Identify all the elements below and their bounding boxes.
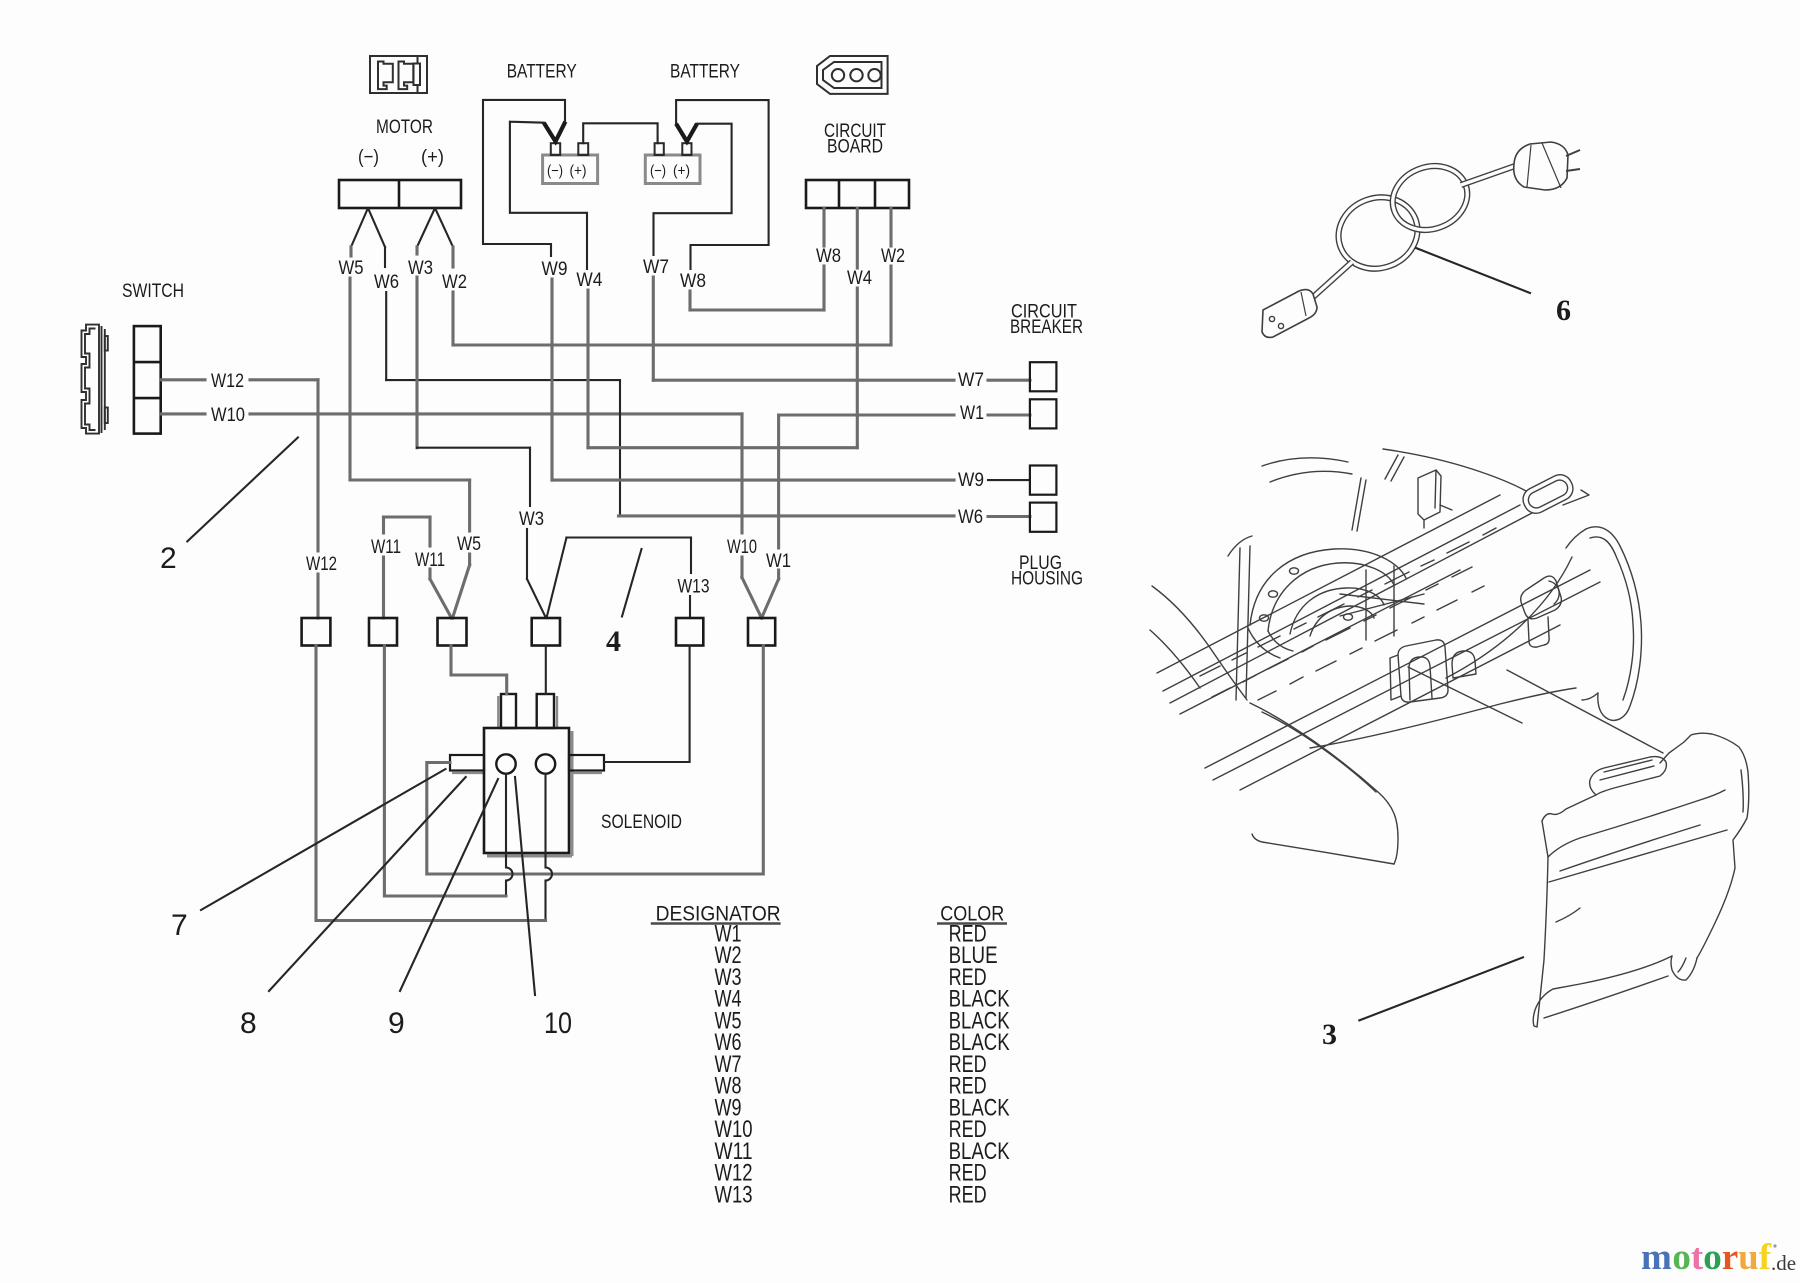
- callout leader 10: [515, 777, 535, 995]
- motoruf logo: [1641, 1237, 1796, 1278]
- wire terminal T4 to solenoid right stud: [545, 646, 547, 695]
- svg-text:4: 4: [606, 625, 621, 658]
- fan bracket: [1340, 566, 1424, 640]
- svg-text:SWITCH: SWITCH: [122, 280, 184, 302]
- cord tail to connector: [1312, 262, 1352, 298]
- wire W1 terminal to breaker: [762, 415, 1030, 618]
- svg-text:W9: W9: [958, 470, 984, 491]
- svg-text:6: 6: [1556, 294, 1571, 327]
- appliance connector: [1262, 290, 1317, 338]
- wire solenoid right tab to terminal T5: [604, 646, 690, 763]
- svg-text:BOARD: BOARD: [827, 136, 883, 158]
- svg-text:W13: W13: [678, 577, 710, 598]
- terminal block T3: [438, 618, 467, 646]
- svg-text:W1: W1: [766, 551, 791, 572]
- svg-text:W5: W5: [457, 534, 481, 555]
- svg-text:u: u: [1738, 1237, 1759, 1278]
- svg-text:W13: W13: [715, 1182, 753, 1209]
- wire W11 jumper between terminals: [384, 517, 452, 618]
- callout leader 2: [187, 438, 298, 542]
- solenoid left tab: [450, 755, 484, 771]
- svg-text:f: f: [1759, 1237, 1772, 1278]
- mower deck illustration: [1150, 449, 1663, 864]
- wire W5 motor to terminal: [350, 247, 470, 618]
- svg-text:W3: W3: [519, 509, 544, 530]
- solenoid left post circle: [496, 754, 515, 773]
- wire W10 switch to terminal: [161, 414, 762, 618]
- svg-text:W1: W1: [960, 403, 984, 424]
- svg-text:(−): (−): [547, 163, 563, 180]
- svg-text:W3: W3: [408, 258, 433, 279]
- wire W8 battery B2 to circuit board: [676, 100, 769, 269]
- callout leader 8: [269, 777, 466, 991]
- top clip bracket: [1418, 470, 1441, 520]
- svg-text:MOTOR: MOTOR: [376, 116, 433, 138]
- wire W7 battery B2 to circuit breaker: [654, 124, 732, 255]
- wire W13 terminal B5 to terminal B4: [547, 538, 692, 619]
- wire W6 motor to plug housing: [385, 247, 620, 515]
- deck top rim arcs: [1262, 458, 1348, 466]
- svg-text:SOLENOID: SOLENOID: [601, 811, 682, 833]
- assembly leader lines: [1408, 667, 1522, 723]
- wire W12 switch to terminal: [161, 380, 318, 618]
- wire W3 motor to terminal: [415, 247, 418, 448]
- designator table rows: [715, 921, 1010, 1209]
- deck shell right edge: [1446, 557, 1572, 678]
- wire solenoid left post to terminal T2: [506, 774, 513, 896]
- handle rail end cap: [1519, 471, 1577, 518]
- plug housing box P1: [1030, 466, 1057, 495]
- solenoid SOL1 body: [452, 696, 602, 856]
- discharge cover illustration (item 3): [1533, 733, 1749, 1027]
- svg-text:.de: .de: [1771, 1251, 1796, 1275]
- battery B2: [645, 143, 700, 183]
- fan antenna: [1352, 478, 1366, 531]
- small cap: [1452, 651, 1476, 678]
- wire solenoid left tab to terminal T6 (crosses under posts): [427, 646, 764, 875]
- svg-text:W10: W10: [211, 405, 245, 426]
- svg-text:3: 3: [1322, 1018, 1337, 1051]
- plug housing box P2: [1030, 503, 1057, 532]
- svg-text:10: 10: [544, 1007, 572, 1040]
- svg-text:W11: W11: [415, 550, 445, 571]
- wire W2 motor to circuit board: [453, 208, 891, 345]
- svg-text:(+): (+): [570, 163, 587, 180]
- svg-text:BREAKER: BREAKER: [1010, 316, 1083, 338]
- callout leader 3: [1359, 957, 1523, 1020]
- svg-text:W7: W7: [958, 370, 984, 391]
- svg-text:W8: W8: [816, 246, 841, 267]
- svg-text:8: 8: [240, 1007, 257, 1040]
- circuit breaker box CB2: [1030, 399, 1057, 428]
- lower bracket: [1398, 640, 1448, 702]
- svg-text:o: o: [1703, 1237, 1722, 1278]
- svg-text:RED: RED: [949, 1182, 987, 1209]
- svg-text:(+): (+): [421, 146, 444, 168]
- switch connector icon: [82, 325, 108, 434]
- svg-text:r: r: [1722, 1237, 1738, 1278]
- motor left terminal fanout: [351, 208, 385, 247]
- cord tail to plug: [1461, 166, 1515, 185]
- mains plug: [1514, 142, 1568, 190]
- svg-text:W8: W8: [680, 271, 706, 292]
- rail dashes: [1200, 528, 1496, 676]
- upper handle rail band: [1163, 505, 1520, 691]
- terminal block T4: [532, 618, 560, 646]
- motor right terminal fanout: [417, 208, 453, 247]
- svg-text:9: 9: [388, 1007, 405, 1040]
- wire W9 battery B1 to plug housing: [483, 100, 565, 256]
- svg-text:W4: W4: [847, 268, 872, 289]
- solenoid left top stud: [501, 694, 516, 728]
- svg-text:W12: W12: [211, 371, 244, 392]
- battery B1 negative post connector V: [544, 122, 566, 142]
- svg-text:W6: W6: [958, 507, 983, 528]
- wire terminal T3 to solenoid left stud: [451, 646, 507, 695]
- wire battery bridge B1(+) to B2(-): [583, 123, 657, 143]
- terminal block T1: [302, 618, 331, 646]
- svg-text:W7: W7: [643, 257, 669, 278]
- svg-text:7: 7: [171, 909, 188, 942]
- svg-text:m: m: [1641, 1237, 1672, 1278]
- svg-text:W10: W10: [727, 537, 757, 558]
- callout leader 6: [1416, 248, 1530, 293]
- solenoid right top stud: [537, 694, 554, 728]
- circuit board box: [806, 180, 909, 208]
- terminal block T2: [369, 618, 397, 646]
- svg-text:o: o: [1672, 1237, 1691, 1278]
- battery B1: [543, 143, 598, 183]
- fan housing: [1250, 549, 1406, 625]
- svg-text:(−): (−): [650, 163, 666, 180]
- svg-text:W11: W11: [371, 537, 401, 558]
- terminal block T5: [676, 618, 703, 646]
- svg-text:W12: W12: [306, 554, 337, 575]
- svg-text:BATTERY: BATTERY: [670, 61, 740, 83]
- svg-text:W5: W5: [339, 258, 364, 279]
- battery B2 positive post connector V: [676, 124, 697, 142]
- svg-text:W9: W9: [542, 259, 568, 280]
- motor M1 box: [339, 180, 461, 208]
- svg-text:(+): (+): [673, 163, 690, 180]
- svg-text:BATTERY: BATTERY: [507, 61, 577, 83]
- callout leader 7: [201, 769, 446, 910]
- wire W4 battery B1 to circuit board: [510, 122, 587, 269]
- cord left loop: [1328, 186, 1427, 279]
- bottom skirt: [1250, 703, 1398, 864]
- terminal block T6: [748, 618, 775, 646]
- right fin: [1586, 527, 1642, 720]
- switch S1 box: [134, 326, 161, 434]
- circuit breaker box CB1: [1030, 362, 1057, 391]
- svg-text:t: t: [1691, 1237, 1704, 1278]
- svg-text:W2: W2: [442, 272, 467, 293]
- lower rail band: [1205, 570, 1590, 768]
- svg-text:(−): (−): [358, 146, 379, 168]
- motor icon: [370, 56, 427, 93]
- svg-text:W4: W4: [576, 270, 602, 291]
- mid roller bracket: [1521, 576, 1562, 619]
- callout leader 9: [400, 779, 498, 991]
- callout leader 4: [622, 549, 642, 617]
- solenoid right tab: [569, 755, 604, 771]
- left wing: [1152, 586, 1247, 700]
- cord right loop: [1384, 156, 1477, 240]
- power cord illustration: [1262, 142, 1580, 337]
- svg-text:HOUSING: HOUSING: [1011, 568, 1083, 590]
- wire solenoid right post to terminal T1: [546, 774, 553, 921]
- svg-text:W6: W6: [374, 272, 399, 293]
- svg-text:W2: W2: [881, 246, 905, 267]
- solenoid right post circle: [536, 754, 555, 773]
- circuit board icon: [817, 56, 888, 94]
- svg-text:2: 2: [160, 542, 177, 575]
